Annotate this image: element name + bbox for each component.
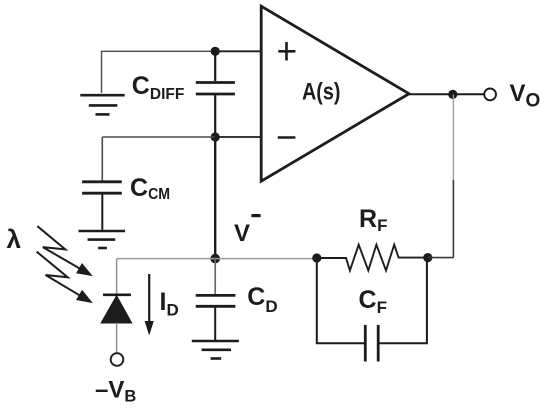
node A junction dot (top of C_DIFF) <box>211 47 220 56</box>
resistor R_F <box>321 245 428 271</box>
wire C_F left branch <box>317 258 365 343</box>
wire op-amp output <box>409 93 484 95</box>
-VB terminal open circle <box>111 353 124 366</box>
wire V- node horizontal (photodiode to R_F left) <box>117 258 317 260</box>
output terminal open circle <box>484 89 496 101</box>
capacitor C_DIFF <box>196 51 235 137</box>
photodiode D1 triangle (anode) <box>102 296 132 323</box>
svg-text:A(s): A(s) <box>302 79 341 106</box>
wire R_F right dot to feedback vertical <box>428 257 454 259</box>
op-amp A(s) <box>261 6 409 181</box>
wire op-amp node vertical down to V- node <box>214 137 216 259</box>
ground GND2 (under C_CM) <box>79 231 126 248</box>
wire node B to op-amp - input <box>215 136 261 138</box>
svg-text:V: V <box>234 220 250 247</box>
wire node A to op-amp + input <box>215 50 261 52</box>
output junction dot <box>448 90 457 99</box>
ground GND1 (top-left) <box>80 95 124 114</box>
node R_F right junction dot <box>423 253 432 262</box>
wire from ground GND1 to node A (top-left L wire) <box>102 51 216 93</box>
photodiode D1 cathode bar <box>103 293 131 296</box>
wire node B to C_CM branch <box>102 136 215 138</box>
wire feedback vertical (output down to R_F right) <box>452 94 454 180</box>
wire C_F right branch <box>379 258 427 344</box>
photon arrow 2 <box>37 252 91 302</box>
wire photodiode to -VB terminal <box>116 323 118 353</box>
capacitor C_F plates <box>365 325 378 362</box>
photon arrow 1 <box>37 226 90 275</box>
current arrow I_D <box>145 274 154 336</box>
capacitor C_D <box>196 259 236 340</box>
op-amp - symbol <box>278 136 296 139</box>
capacitor C_CM <box>82 137 122 230</box>
op-amp + symbol <box>278 42 295 61</box>
svg-text:λ: λ <box>7 224 22 254</box>
node V- junction dot <box>210 254 220 264</box>
ground GND3 (under C_D) <box>192 341 239 359</box>
node R_F left junction dot <box>312 253 321 262</box>
wire V- node down to photodiode <box>116 259 118 294</box>
node B junction dot (bottom of C_DIFF / minus input node) <box>211 132 220 141</box>
